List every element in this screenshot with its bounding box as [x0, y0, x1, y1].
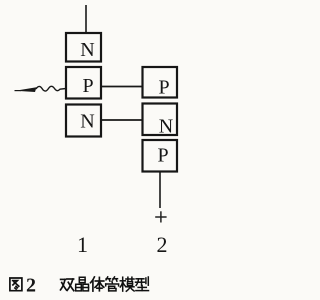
svg-text:N: N: [80, 39, 94, 61]
svg-text:N: N: [80, 110, 94, 132]
svg-text:P: P: [157, 145, 168, 167]
svg-text:2: 2: [26, 275, 36, 297]
svg-text:2: 2: [157, 232, 168, 257]
svg-text:P: P: [82, 75, 93, 97]
svg-text:P: P: [158, 76, 169, 98]
svg-text:N: N: [159, 115, 173, 137]
svg-text:1: 1: [77, 232, 88, 257]
